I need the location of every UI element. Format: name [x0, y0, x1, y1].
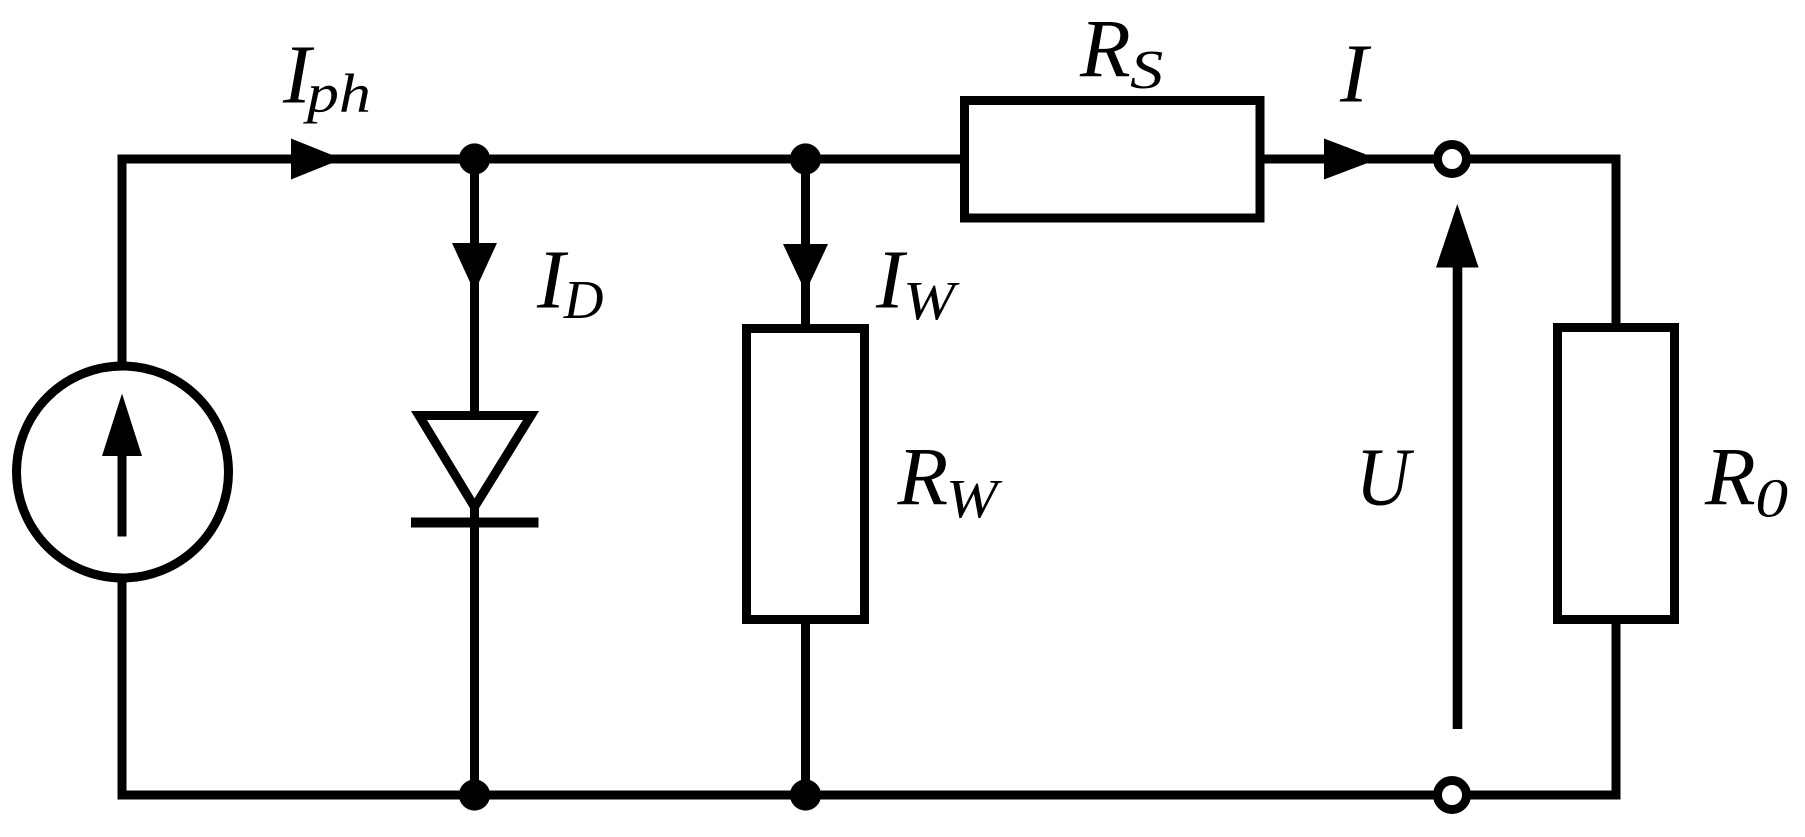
wire top-left from R_S to left corner and down to source	[122, 159, 966, 367]
current source arrow	[102, 394, 142, 537]
terminal bottom (output -)	[1438, 781, 1467, 810]
terminal top (output +)	[1438, 145, 1467, 174]
svg-text:ph: ph	[303, 63, 371, 124]
arrow I_ph	[291, 139, 342, 180]
arrow I_W	[783, 244, 828, 292]
diode D cathode bar	[411, 518, 539, 528]
resistor R_S	[965, 101, 1261, 219]
diode D triangle	[419, 416, 531, 508]
arrow I (output current)	[1324, 139, 1378, 180]
label I_W	[875, 234, 960, 332]
svg-text:R: R	[1704, 431, 1756, 523]
svg-text:D: D	[563, 269, 604, 330]
svg-text:S: S	[1130, 40, 1163, 100]
wire left-bottom from source down, bottom rail, up right to R_0 bottom	[122, 577, 1616, 795]
voltage arrow U	[1436, 204, 1479, 729]
svg-text:W: W	[903, 270, 960, 331]
svg-text:W: W	[946, 468, 1003, 529]
node B top R_W junction	[790, 143, 821, 174]
svg-text:0: 0	[1755, 468, 1788, 529]
label I_ph	[282, 28, 371, 124]
node D bottom R_W junction	[790, 779, 821, 810]
label R_S	[1079, 3, 1163, 101]
current source circle	[17, 366, 229, 578]
resistor R_0	[1558, 328, 1675, 620]
wire diode branch upper	[470, 159, 479, 417]
label R_0	[1704, 431, 1788, 529]
wire top-right from R_S through terminal to corner, down to R_0 top	[1264, 159, 1616, 327]
svg-text:R: R	[897, 431, 949, 523]
arrow I_D	[452, 243, 497, 292]
label R_W	[897, 431, 1004, 530]
svg-text:U: U	[1356, 431, 1415, 523]
node A top diode junction	[459, 143, 490, 174]
resistor R_W	[747, 329, 865, 620]
wire R_W branch upper	[801, 159, 810, 328]
svg-text:R: R	[1079, 3, 1131, 95]
node C bottom diode junction	[459, 779, 490, 810]
wire R_W branch lower	[801, 620, 810, 795]
svg-text:I: I	[1339, 28, 1372, 121]
wire diode branch lower	[470, 508, 479, 795]
label I_D	[536, 234, 603, 331]
